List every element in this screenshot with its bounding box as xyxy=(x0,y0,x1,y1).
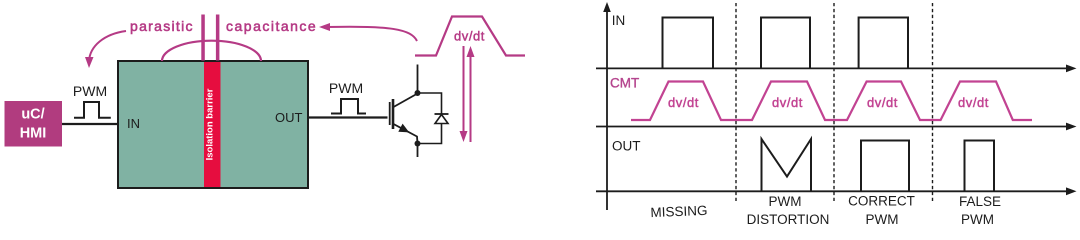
curved arrow from parasitic label to input PWM xyxy=(85,31,126,68)
svg-text:IN: IN xyxy=(612,13,626,28)
uC/HMI controller box U1 xyxy=(5,101,63,147)
svg-text:dv/dt: dv/dt xyxy=(668,95,699,110)
section divider dashed 1 xyxy=(735,3,737,203)
svg-text:dv/dt: dv/dt xyxy=(867,95,898,110)
collector lead xyxy=(417,65,419,94)
svg-text:FALSE: FALSE xyxy=(959,194,1001,209)
diode branch top wire xyxy=(418,93,442,114)
PWM pulse symbol (input side) xyxy=(74,102,111,118)
gate bar xyxy=(389,102,391,125)
svg-text:IN: IN xyxy=(127,116,140,131)
svg-text:dv/dt: dv/dt xyxy=(454,29,485,44)
svg-text:MISSING: MISSING xyxy=(650,203,708,220)
vertical axis xyxy=(603,2,611,210)
OUT false pulse xyxy=(965,141,995,192)
collector diagonal xyxy=(394,94,418,108)
svg-text:parasitic: parasitic xyxy=(130,18,194,34)
IN pulse 2 xyxy=(761,18,810,69)
svg-text:PWM: PWM xyxy=(769,194,802,209)
svg-text:dv/dt: dv/dt xyxy=(772,95,803,110)
section divider dashed 3 xyxy=(932,3,934,203)
OUT distorted pulse (M shape) xyxy=(762,139,812,191)
curved arrow from dv/dt source to capacitance label xyxy=(319,23,417,41)
svg-text:dv/dt: dv/dt xyxy=(958,95,989,110)
parasitic capacitor plate right xyxy=(216,15,220,61)
emitter diagonal xyxy=(394,124,418,144)
wire isolator OUT to IGBT gate xyxy=(308,116,388,118)
diode triangle xyxy=(435,115,448,124)
IGBT Q1 xyxy=(390,65,421,158)
isolator box (teal) xyxy=(118,61,308,188)
svg-text:CORRECT: CORRECT xyxy=(848,194,915,209)
svg-text:PWM: PWM xyxy=(73,83,107,99)
parasitic capacitor plate left xyxy=(201,15,205,61)
dv/dt up arrow xyxy=(467,46,475,142)
wire uC/HMI to isolator IN xyxy=(62,123,118,125)
svg-text:uC/: uC/ xyxy=(21,107,44,123)
section divider dashed 2 xyxy=(833,3,835,203)
svg-text:capacitance: capacitance xyxy=(226,18,317,34)
IN pulse 3 xyxy=(859,18,908,69)
emitter arrow xyxy=(398,124,409,133)
svg-text:OUT: OUT xyxy=(612,139,641,154)
svg-text:CMT: CMT xyxy=(610,76,639,91)
OUT axis xyxy=(596,187,1077,195)
dv/dt down arrow xyxy=(460,46,468,142)
diode cathode bar xyxy=(435,113,449,115)
body bar xyxy=(392,99,395,129)
CMT waveform (common-mode transients) xyxy=(631,82,1032,121)
dv/dt trapezoid waveform (left diagram) xyxy=(415,17,525,56)
parasitic capacitance coupling arc xyxy=(162,41,261,61)
OUT correct pulse xyxy=(861,141,909,192)
freewheeling diode D1 xyxy=(418,93,449,144)
svg-text:DISTORTION: DISTORTION xyxy=(747,212,830,227)
emitter node dot xyxy=(415,141,421,147)
svg-text:PWM: PWM xyxy=(866,212,899,227)
IN axis xyxy=(596,65,1077,73)
emitter lead xyxy=(417,144,419,158)
svg-text:Isolation barrier: Isolation barrier xyxy=(205,88,216,160)
IN pulse 1 xyxy=(663,18,714,69)
svg-text:HMI: HMI xyxy=(20,126,47,142)
svg-text:PWM: PWM xyxy=(961,212,994,227)
collector node dot xyxy=(415,90,421,96)
isolation barrier red strip xyxy=(204,62,221,187)
PWM pulse symbol (output side) xyxy=(331,99,366,114)
svg-text:OUT: OUT xyxy=(275,110,303,125)
CMT axis xyxy=(596,123,1077,131)
svg-text:PWM: PWM xyxy=(329,80,363,96)
diode branch bottom wire xyxy=(418,124,442,144)
